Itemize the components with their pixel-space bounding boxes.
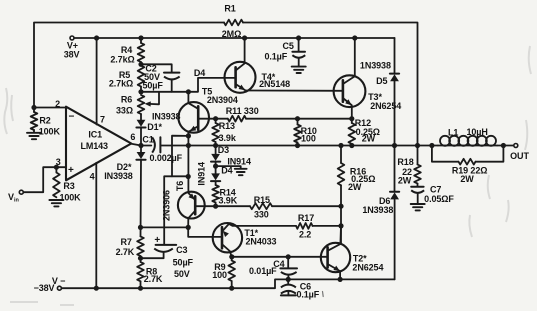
svg-text:100: 100 bbox=[212, 270, 227, 280]
wire pin 2 input bbox=[34, 107, 66, 109]
junction R16/rail bbox=[338, 143, 343, 148]
svg-text:R18: R18 bbox=[397, 157, 413, 167]
junction C4/C6/V- line bbox=[286, 277, 291, 282]
junction C5/V+ bbox=[296, 35, 301, 40]
pin 3 label bbox=[56, 157, 61, 167]
wire ground tap bbox=[216, 166, 241, 168]
wire T5 collector bbox=[187, 92, 189, 103]
OUT terminal bbox=[510, 144, 529, 162]
svg-text:2W: 2W bbox=[460, 174, 474, 184]
capacitor C3 bbox=[141, 235, 194, 279]
junction T4 collector/V+ bbox=[242, 35, 247, 40]
svg-text:0.1µF: 0.1µF bbox=[296, 290, 319, 300]
wire T2 collector to column bbox=[339, 226, 342, 244]
junction emitters/C3 branch upper bbox=[186, 133, 191, 138]
transistor T4 2N5148 bbox=[225, 62, 291, 93]
wire output rail bbox=[131, 144, 513, 146]
resistor R9 bbox=[212, 257, 235, 288]
junction T6 collector branch bbox=[186, 225, 191, 230]
pin 6 label bbox=[130, 132, 135, 142]
svg-text:R17: R17 bbox=[298, 213, 314, 223]
resistor R8 bbox=[137, 258, 163, 288]
wire T3 emitter to R12 bbox=[351, 105, 353, 118]
diode D5 1N3938 bbox=[360, 61, 399, 146]
resistor R11 bbox=[226, 106, 259, 122]
transistor T1 2N4033 bbox=[213, 223, 277, 252]
resistor R19 loop bbox=[432, 146, 504, 185]
resistor R14 bbox=[212, 185, 237, 206]
svg-text:2W: 2W bbox=[362, 134, 376, 144]
junction R7/R8/C3 bbox=[138, 256, 143, 261]
svg-text:−38V: −38V bbox=[34, 283, 55, 293]
capacitor C4 bbox=[249, 257, 297, 280]
junction R14/T6 base/R15 bbox=[213, 204, 218, 209]
capacitor C5 bbox=[264, 38, 305, 66]
wire pin 7 to V+ bbox=[96, 38, 98, 125]
junction emitters/C3 branch lower bbox=[186, 174, 191, 179]
svg-text:50V: 50V bbox=[174, 269, 190, 279]
junction pin7/V+ bbox=[94, 35, 99, 40]
svg-text:D1*: D1* bbox=[147, 122, 162, 132]
svg-text:2.7K: 2.7K bbox=[144, 274, 163, 284]
svg-text:330: 330 bbox=[254, 209, 269, 219]
wire R15 to column bbox=[272, 205, 341, 207]
junction R4/V+ bbox=[138, 35, 143, 40]
junction emitters/C1 rail bbox=[186, 143, 191, 148]
svg-text:−: − bbox=[69, 112, 75, 123]
ground under R2 bbox=[27, 133, 41, 139]
svg-text:2N3906: 2N3906 bbox=[161, 190, 171, 221]
capacitor C2 bbox=[141, 63, 180, 91]
svg-text:3.9k: 3.9k bbox=[219, 133, 237, 143]
junction R15/column bbox=[338, 204, 343, 209]
wire T3 collector to V+ bbox=[354, 38, 356, 76]
svg-text:IN3938: IN3938 bbox=[104, 171, 133, 181]
junction feedback/R18 on rail bbox=[415, 143, 420, 148]
svg-text:2W: 2W bbox=[348, 182, 362, 192]
svg-text:IN914: IN914 bbox=[197, 162, 207, 186]
junction T5 base/R13 bbox=[213, 116, 218, 121]
transistor T6 2N3906 bbox=[161, 181, 204, 221]
D4 label top bbox=[194, 68, 205, 78]
svg-text:2N3904: 2N3904 bbox=[207, 95, 238, 105]
junction R17/column bbox=[338, 223, 343, 228]
wiper arrow of R6 bbox=[145, 92, 160, 107]
svg-text:2N6254: 2N6254 bbox=[370, 101, 401, 111]
junction D1/D2 pin6 node bbox=[138, 143, 143, 148]
resistor R2 bbox=[31, 108, 61, 137]
diode D3 IN914 bbox=[211, 145, 251, 167]
svg-text:D3: D3 bbox=[218, 145, 229, 155]
resistor R5 bbox=[109, 66, 144, 92]
wire pin 4 to V- bbox=[95, 163, 97, 288]
svg-text:0.002µF: 0.002µF bbox=[150, 153, 183, 163]
svg-text:50µF: 50µF bbox=[173, 258, 194, 268]
wire R11 node to T3 emitter node bbox=[246, 118, 352, 120]
transistor T5 2N3904 bbox=[178, 86, 237, 132]
pin 2 label bbox=[55, 99, 60, 109]
wire T1 emitter to R17 bbox=[229, 224, 296, 226]
wire R17 to column bbox=[313, 225, 342, 227]
junction node A pin2 bbox=[31, 105, 36, 110]
junction R10/rail bbox=[295, 143, 300, 148]
junction C4 top bbox=[286, 254, 291, 259]
V- terminal bbox=[34, 276, 66, 293]
svg-text:4: 4 bbox=[90, 172, 95, 182]
svg-text:T6: T6 bbox=[175, 181, 185, 191]
junction R3 tap bbox=[54, 165, 59, 170]
svg-text:LM143: LM143 bbox=[80, 141, 108, 151]
transistor T2 2N6254 bbox=[321, 243, 384, 272]
resistor R6 rheostat bbox=[116, 94, 144, 115]
junction R5/R6 node B bbox=[138, 89, 143, 94]
resistor R3 bbox=[53, 167, 81, 202]
svg-text:IC1: IC1 bbox=[88, 130, 102, 140]
capacitor C7 bbox=[411, 184, 454, 204]
resistor R1 bbox=[222, 4, 243, 40]
svg-text:R3: R3 bbox=[63, 181, 74, 191]
svg-text:R15: R15 bbox=[254, 195, 270, 205]
resistor R15 bbox=[250, 195, 272, 220]
svg-text:2.2: 2.2 bbox=[299, 229, 311, 239]
svg-text:38V: 38V bbox=[64, 50, 80, 60]
junction R10 top bbox=[295, 116, 300, 121]
Vin terminal bbox=[8, 190, 23, 203]
wire T5/T6 emitter column bbox=[187, 131, 189, 192]
wire V+ rail bbox=[74, 37, 394, 39]
wire T4 emitter to T3 base bbox=[245, 90, 343, 92]
junction R19 left tap bbox=[429, 143, 434, 148]
pin 7 label bbox=[100, 114, 105, 124]
junction R12/rail bbox=[349, 143, 354, 148]
junction R9/V- rail bbox=[229, 286, 234, 291]
resistor R12 bbox=[349, 118, 380, 145]
wire node B to T4 base bbox=[141, 78, 236, 92]
svg-text:R11 330: R11 330 bbox=[226, 106, 259, 116]
capacitor C6 bbox=[281, 279, 323, 299]
svg-text:R6: R6 bbox=[121, 94, 132, 104]
svg-text:2W: 2W bbox=[398, 176, 412, 186]
svg-text:C7: C7 bbox=[430, 184, 441, 194]
wire Vin to pin 3 bbox=[24, 167, 66, 192]
junction T1 collector/R9/T2 base bbox=[229, 254, 234, 259]
svg-text:1N3938: 1N3938 bbox=[362, 205, 393, 215]
resistor R16 bbox=[338, 146, 376, 244]
junction D3/D4/ground bbox=[213, 164, 218, 169]
svg-text:2.7K: 2.7K bbox=[116, 247, 135, 257]
svg-text:+: + bbox=[154, 235, 160, 246]
wire T6 collector bbox=[187, 218, 189, 227]
svg-text:OUT: OUT bbox=[510, 151, 529, 161]
svg-text:33Ω: 33Ω bbox=[116, 106, 133, 116]
resistor R17 bbox=[296, 213, 314, 239]
wire T1 collector node bbox=[230, 251, 232, 257]
svg-text:C1: C1 bbox=[142, 134, 153, 144]
wire branch to C3 lower bbox=[164, 176, 188, 244]
junction T3 collector/V+ bbox=[352, 35, 357, 40]
op-amp IC1 LM143 bbox=[66, 107, 131, 181]
wire feedback top line from node A to output bbox=[34, 23, 418, 146]
wire V- rail bbox=[62, 279, 395, 288]
svg-text:100: 100 bbox=[301, 133, 316, 143]
junction D5-D6 column/rail bbox=[392, 143, 397, 148]
diode D2 1N3938 bbox=[104, 146, 145, 237]
resistor R18 bbox=[397, 146, 420, 187]
svg-text:C3: C3 bbox=[176, 245, 187, 255]
ground under R3 bbox=[49, 200, 63, 206]
resistor R4 bbox=[110, 38, 144, 64]
svg-text:R13: R13 bbox=[219, 121, 235, 131]
wire T1 collector to T2 base bbox=[232, 256, 328, 258]
svg-text:0.1µF: 0.1µF bbox=[264, 51, 287, 61]
svg-text:1N3938: 1N3938 bbox=[360, 61, 391, 71]
svg-text:R1: R1 bbox=[224, 4, 235, 14]
svg-text:2N4033: 2N4033 bbox=[246, 237, 277, 247]
wire branch to C3 upper bbox=[172, 136, 188, 177]
wire T6 collector to T1 base bbox=[188, 227, 222, 237]
diode D4 IN914 bbox=[197, 162, 233, 186]
svg-text:2N5148: 2N5148 bbox=[259, 79, 290, 89]
ground under C5 bbox=[292, 67, 306, 73]
pin 4 label bbox=[90, 172, 95, 182]
svg-text:2.7kΩ: 2.7kΩ bbox=[110, 54, 134, 64]
svg-text:6: 6 bbox=[130, 132, 135, 142]
svg-text:IN3938: IN3938 bbox=[152, 111, 181, 121]
ground at D3/D4 bbox=[235, 169, 247, 175]
resistor R7 bbox=[116, 236, 144, 258]
resistor R10 bbox=[294, 119, 317, 146]
svg-text:0.05ΩF: 0.05ΩF bbox=[424, 194, 454, 204]
wire branch to D2 column bbox=[141, 226, 189, 228]
wire V+ corner to D5 bbox=[394, 38, 396, 74]
svg-text:D5: D5 bbox=[376, 76, 387, 86]
junction R13/rail/D3 bbox=[213, 143, 218, 148]
resistor R13 bbox=[212, 119, 237, 146]
wire T5 base to R11 node bbox=[198, 118, 228, 120]
junction R19 right tap bbox=[501, 143, 506, 148]
svg-text:D4: D4 bbox=[194, 68, 205, 78]
junction R7R8/V- rail bbox=[138, 286, 143, 291]
svg-text:100K: 100K bbox=[39, 127, 61, 137]
wire T2 emitter bbox=[339, 271, 341, 279]
svg-text:R2: R2 bbox=[39, 115, 50, 125]
wire D6 column lower bbox=[394, 200, 396, 280]
wire T4 collector to V+ bbox=[244, 38, 246, 63]
junction T2 emitter/V- line bbox=[338, 277, 343, 282]
svg-text:2.7kΩ: 2.7kΩ bbox=[109, 79, 133, 89]
capacitor C1 bbox=[141, 134, 188, 163]
svg-text:2N6254: 2N6254 bbox=[352, 262, 383, 272]
wire T6 base line bbox=[195, 205, 250, 207]
diode D6 1N3938 bbox=[362, 192, 399, 215]
svg-text:L1: L1 bbox=[448, 127, 458, 137]
junction T3 emitter/R12 top bbox=[349, 116, 354, 121]
svg-text:+: + bbox=[68, 165, 74, 176]
junction on D2-R7 column bbox=[138, 225, 143, 230]
svg-text:D4: D4 bbox=[221, 165, 232, 175]
svg-text:0.01µF: 0.01µF bbox=[249, 266, 277, 276]
ground under C7 bbox=[411, 204, 425, 210]
V+ terminal bbox=[64, 36, 80, 60]
transistor T3 2N6254 bbox=[334, 75, 402, 111]
junction T5 collector node B bbox=[186, 89, 191, 94]
svg-text:7: 7 bbox=[100, 114, 105, 124]
diode D1 1N3938 bbox=[136, 111, 180, 145]
wire D6 to rail bbox=[394, 146, 396, 192]
inductor L1 10uH bbox=[438, 127, 497, 146]
junction pin4/V- rail bbox=[94, 286, 99, 291]
svg-text:R7: R7 bbox=[120, 237, 131, 247]
svg-text:C5: C5 bbox=[282, 41, 293, 51]
junction R4/R5/C2 bbox=[138, 62, 143, 67]
svg-text:10µH: 10µH bbox=[466, 127, 487, 137]
svg-text:50µF: 50µF bbox=[142, 81, 163, 91]
svg-text:3.9K: 3.9K bbox=[218, 196, 237, 206]
